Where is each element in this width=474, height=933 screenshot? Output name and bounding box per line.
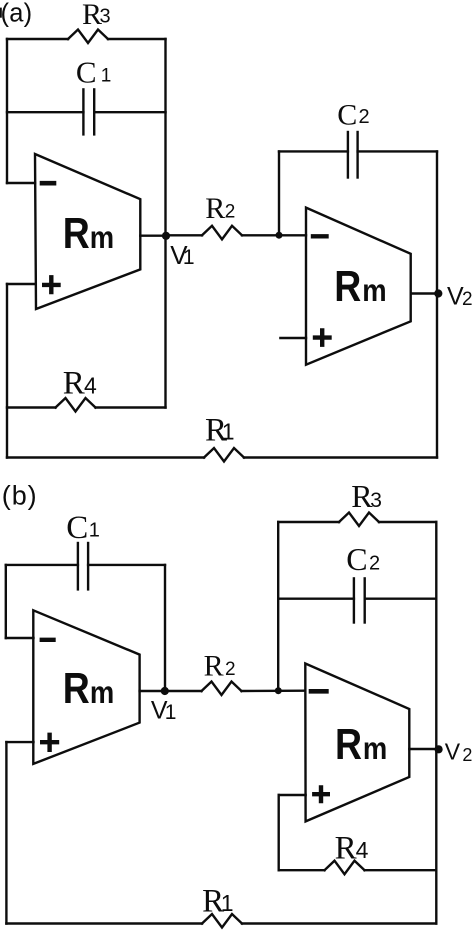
wire: non-inverting stub U2a — [280, 337, 306, 339]
svg-text:C: C — [337, 98, 357, 131]
node V2 (a) junction dot — [434, 289, 442, 297]
wire: R3/C2 left leg (b) — [277, 522, 279, 691]
svg-text:4: 4 — [356, 837, 369, 863]
svg-text:m: m — [362, 273, 386, 308]
resistor R3 (b) — [278, 521, 339, 523]
op-amp U1a body — [35, 154, 140, 309]
svg-text:2: 2 — [369, 553, 380, 575]
capacitor C2 (b) plates — [353, 578, 355, 622]
wire: non-inverting input U2b — [279, 794, 306, 796]
wire: left rail (b) plus side down to R1 — [5, 742, 7, 923]
svg-text:R: R — [335, 831, 357, 867]
svg-text:4: 4 — [84, 373, 97, 399]
resistor R1 (a) bottom wire — [7, 456, 204, 458]
node junction R2/R3/C2 (b) dot — [275, 687, 282, 694]
svg-text:R: R — [204, 649, 224, 682]
wire: C2 left leg (a) — [278, 151, 280, 235]
node V1 (a) junction dot — [162, 232, 170, 240]
svg-text:2: 2 — [225, 202, 236, 223]
edge artifact top-left — [0, 8, 2, 18]
svg-text:1: 1 — [165, 701, 177, 724]
svg-text:2: 2 — [462, 745, 472, 765]
resistor R2 (a) — [166, 234, 203, 236]
svg-text:V: V — [445, 739, 461, 765]
wire: V1 rail (b) C1 right leg — [164, 565, 166, 691]
svg-text:2: 2 — [225, 659, 236, 680]
resistor R2 (b) — [165, 690, 202, 692]
minus sign U2b — [311, 689, 326, 694]
wire: inverting input op-amp U1a — [7, 182, 35, 184]
resistor R4 (a) wire — [7, 406, 56, 408]
wire: U2a output to V2 — [411, 292, 437, 294]
plus sign U1a — [44, 277, 58, 292]
svg-text:R: R — [63, 663, 90, 713]
plus sign U2a — [315, 331, 330, 345]
capacitor C2 (a) wire left — [279, 150, 348, 152]
wire: non-inverting input U1a — [7, 283, 35, 285]
svg-text:2: 2 — [359, 106, 370, 128]
capacitor C1 (a) plates — [82, 89, 84, 134]
capacitor C1 (b) plates — [77, 543, 79, 589]
svg-text:1: 1 — [183, 246, 195, 269]
svg-text:1: 1 — [221, 890, 234, 916]
node V1 (b) junction dot — [161, 687, 169, 695]
svg-text:(a): (a) — [1, 0, 33, 27]
wire: U1b output — [140, 690, 165, 692]
wire: plus leg down to R4 (b) — [278, 795, 280, 870]
capacitor C1 (a) wire right — [94, 111, 165, 113]
resistor R4 (b) — [279, 869, 325, 871]
capacitor C2 (a) plates — [347, 132, 349, 178]
minus sign U1a — [42, 181, 54, 186]
svg-text:(b): (b) — [2, 481, 38, 511]
svg-text:3: 3 — [370, 489, 382, 512]
node V2 (b) junction dot — [435, 745, 443, 753]
svg-text:1: 1 — [101, 66, 112, 87]
wire: left rail (b) to inverting input — [5, 565, 7, 638]
svg-text:1: 1 — [222, 419, 235, 445]
plus sign U2b — [314, 787, 328, 801]
op-amp U2a body — [306, 208, 411, 365]
op-amp U1b body — [33, 610, 139, 764]
wire: right rail (a) — [436, 151, 438, 457]
wire: left rail plus side down to R1 (a) — [6, 284, 8, 458]
wire: U1a output — [140, 234, 165, 236]
capacitor C2 (b) wire right — [365, 598, 437, 600]
wire: non-inverting input U1b — [6, 741, 33, 743]
capacitor C1 (a) wire left — [7, 111, 83, 113]
svg-text:R: R — [335, 719, 362, 769]
svg-text:1: 1 — [89, 520, 100, 542]
svg-text:R: R — [205, 192, 225, 225]
resistor R3 (a) on top wire — [7, 38, 68, 40]
capacitor C1 (b) wire right — [88, 564, 165, 566]
wire: U2b output to V2 — [409, 748, 436, 750]
capacitor C2 (b) wire left — [278, 598, 354, 600]
svg-text:C: C — [66, 510, 88, 546]
svg-text:C: C — [346, 541, 367, 577]
capacitor C1 (b) wire left — [6, 564, 78, 566]
wire: (a) left rail from R3/C1 to inverting input — [6, 39, 8, 183]
node junction R2/C2 (a) dot — [276, 232, 283, 239]
svg-text:m: m — [363, 731, 387, 766]
plus sign U1b — [42, 735, 57, 750]
wire: V1 vertical rail (a) — [164, 39, 166, 408]
svg-text:m: m — [90, 220, 114, 255]
minus sign U2a — [313, 234, 327, 238]
svg-text:R: R — [63, 208, 90, 258]
resistor R1 (b) bottom wire — [6, 922, 202, 924]
op-amp U2b body — [305, 664, 409, 822]
svg-text:2: 2 — [462, 289, 473, 310]
capacitor C2 (a) wire right — [358, 150, 437, 152]
svg-text:C: C — [76, 55, 97, 90]
svg-text:R: R — [334, 261, 361, 311]
minus sign U1b — [42, 638, 54, 642]
svg-text:R: R — [63, 366, 85, 402]
svg-text:3: 3 — [100, 6, 111, 28]
wire: right rail (b) — [435, 522, 437, 924]
svg-text:m: m — [90, 675, 114, 710]
